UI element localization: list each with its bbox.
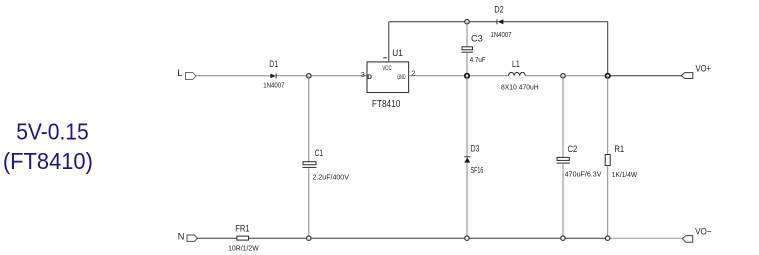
node junction bottom C2 bbox=[561, 236, 565, 240]
node junction at C1 top bbox=[307, 74, 311, 78]
wire VO- stub bbox=[608, 237, 683, 239]
svg-text:1K/1/4W: 1K/1/4W bbox=[612, 170, 638, 179]
svg-text:SF16: SF16 bbox=[471, 166, 484, 175]
wire L to D1 bbox=[196, 75, 270, 77]
capacitor C2 bbox=[557, 144, 603, 179]
svg-text:VO+: VO+ bbox=[696, 63, 712, 74]
svg-text:1N4007: 1N4007 bbox=[263, 81, 284, 90]
svg-text:5V-0.15: 5V-0.15 bbox=[16, 118, 89, 144]
wire D2 down to output rail bbox=[607, 22, 609, 76]
inductor L1 bbox=[501, 59, 539, 92]
node junction bottom D3 bbox=[465, 236, 469, 240]
port VO- bbox=[682, 226, 712, 242]
wire C2 branch upper bbox=[562, 76, 564, 158]
svg-text:U1: U1 bbox=[392, 48, 403, 58]
node junction bottom C1 bbox=[307, 236, 311, 240]
svg-text:C1: C1 bbox=[315, 148, 323, 158]
svg-text:R1: R1 bbox=[614, 144, 624, 154]
wire U1 pin2 to L1 bbox=[409, 75, 509, 77]
diode D1 bbox=[263, 59, 284, 90]
node junction C2 top bbox=[561, 74, 565, 78]
svg-text:D2: D2 bbox=[494, 5, 504, 15]
node junction bottom R1 bbox=[606, 236, 610, 240]
wire top rail left segment bbox=[389, 21, 497, 23]
wire C1 branch upper bbox=[308, 76, 310, 162]
port N bbox=[178, 232, 198, 242]
svg-text:VCC: VCC bbox=[382, 66, 392, 72]
svg-text:470uF/6.3V: 470uF/6.3V bbox=[565, 170, 603, 179]
wire D3 branch upper bbox=[466, 76, 468, 157]
svg-text:D: D bbox=[367, 74, 372, 81]
svg-text:(FT8410): (FT8410) bbox=[3, 148, 93, 174]
port VO+ bbox=[681, 63, 711, 78]
wire C2 branch lower bbox=[562, 164, 564, 238]
wire U1 top pin up bbox=[388, 22, 390, 62]
svg-text:1N4007: 1N4007 bbox=[491, 30, 512, 39]
svg-text:L: L bbox=[177, 68, 182, 78]
diode D2 bbox=[491, 5, 512, 39]
svg-text:GND: GND bbox=[397, 75, 406, 81]
svg-text:FR1: FR1 bbox=[235, 223, 249, 233]
wire D3 branch lower bbox=[466, 163, 468, 239]
pin number 1 mark bbox=[383, 57, 387, 59]
resistor R1 bbox=[605, 144, 638, 179]
svg-text:D3: D3 bbox=[471, 144, 480, 154]
node junction top of C3 bbox=[465, 20, 469, 24]
wire N to FR1 bbox=[198, 237, 237, 239]
wire C1 branch lower bbox=[308, 168, 310, 238]
wire R1 branch lower bbox=[607, 166, 609, 239]
svg-text:C2: C2 bbox=[568, 144, 578, 154]
svg-text:D1: D1 bbox=[269, 59, 278, 69]
wire top rail right segment bbox=[503, 21, 608, 23]
IC U1 FT8410 bbox=[361, 48, 416, 110]
svg-text:L1: L1 bbox=[512, 59, 520, 69]
svg-text:C3: C3 bbox=[471, 33, 483, 43]
capacitor C1 bbox=[303, 148, 350, 182]
wire bottom rail bbox=[249, 237, 608, 239]
svg-text:3: 3 bbox=[361, 70, 365, 79]
svg-text:10R/1/2W: 10R/1/2W bbox=[228, 244, 259, 253]
wire output rail to VO+ bbox=[608, 75, 682, 77]
wire D1 to U1 pin3 bbox=[277, 75, 367, 77]
svg-text:FT8410: FT8410 bbox=[372, 99, 401, 110]
svg-text:VO−: VO− bbox=[695, 226, 712, 237]
node junction R1 top bbox=[606, 74, 610, 78]
svg-text:8X10 470uH: 8X10 470uH bbox=[501, 82, 539, 91]
wire L1 to VO+ bbox=[525, 75, 607, 77]
svg-text:N: N bbox=[178, 232, 185, 242]
node junction C3 bottom (filled) bbox=[465, 74, 469, 78]
port L bbox=[177, 68, 196, 80]
svg-text:2.2uF/400V: 2.2uF/400V bbox=[313, 173, 350, 182]
svg-text:4.7uF: 4.7uF bbox=[470, 55, 486, 64]
capacitor C3 bbox=[462, 22, 486, 76]
resistor FR1 bbox=[228, 223, 259, 252]
wire R1 branch upper bbox=[607, 76, 609, 155]
diode D3 bbox=[464, 144, 483, 176]
